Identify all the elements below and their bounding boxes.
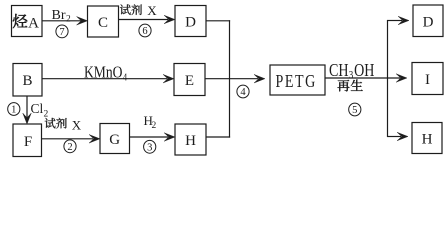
svg-text:OH: OH <box>354 61 375 80</box>
svg-text:I: I <box>425 72 430 88</box>
svg-text:4: 4 <box>123 71 127 83</box>
svg-text:D: D <box>423 15 434 31</box>
svg-text:2: 2 <box>66 15 71 25</box>
box PETG <box>270 65 325 95</box>
arrow B to E with KMnO4 <box>42 63 174 84</box>
arrow to PETG / step 4 <box>205 74 265 98</box>
svg-text:2: 2 <box>67 142 72 153</box>
svg-text:3: 3 <box>349 70 353 82</box>
svg-text:Cl: Cl <box>31 101 44 116</box>
box B <box>13 64 42 97</box>
box H (right) <box>412 123 442 154</box>
arrow PETG to I with CH3OH regeneration / step 5 <box>325 61 407 116</box>
box F <box>13 124 42 157</box>
box 烃A (hydrocarbon A) <box>12 6 43 37</box>
svg-text:E: E <box>185 73 194 89</box>
wire from D to collector <box>206 20 230 22</box>
arrow to H (right) <box>387 132 408 141</box>
arrow G to H with H2 / step 3 <box>130 113 176 153</box>
arrow to D (right) <box>387 16 409 25</box>
box D (left) <box>175 6 206 37</box>
box I <box>412 63 443 95</box>
svg-text:G: G <box>109 132 120 148</box>
svg-text:X: X <box>147 3 157 18</box>
svg-text:F: F <box>24 134 32 150</box>
wire from H to collector <box>206 136 230 138</box>
svg-text:C: C <box>98 15 108 31</box>
arrow B down to F with Cl2 / step 1 <box>8 96 49 125</box>
svg-text:4: 4 <box>240 87 246 98</box>
svg-text:PETG: PETG <box>276 73 317 92</box>
box D (right) <box>413 5 443 37</box>
distributor vertical wire <box>387 20 389 137</box>
svg-text:5: 5 <box>352 105 357 116</box>
box E <box>174 64 205 96</box>
svg-text:D: D <box>185 15 196 31</box>
arrow C to D with reagent X / step 6 <box>119 3 176 37</box>
svg-text:A: A <box>28 16 39 32</box>
svg-text:X: X <box>72 117 82 132</box>
box C <box>88 6 119 37</box>
arrow F to G with reagent X / step 2 <box>42 117 101 153</box>
box H (left) <box>175 124 206 155</box>
svg-text:3: 3 <box>147 142 152 153</box>
svg-text:1: 1 <box>11 105 16 116</box>
svg-text:2: 2 <box>152 121 157 131</box>
svg-text:Br: Br <box>52 8 66 23</box>
svg-text:KMnO: KMnO <box>84 63 122 82</box>
collector vertical wire <box>229 20 231 137</box>
box G <box>100 124 130 154</box>
svg-text:CH: CH <box>329 61 349 80</box>
svg-text:H: H <box>422 132 433 148</box>
svg-text:B: B <box>22 73 32 89</box>
svg-text:H: H <box>185 133 196 149</box>
svg-text:6: 6 <box>142 26 147 37</box>
arrow A to C with Br2 / step 7 <box>42 8 88 38</box>
svg-text:7: 7 <box>59 27 64 38</box>
